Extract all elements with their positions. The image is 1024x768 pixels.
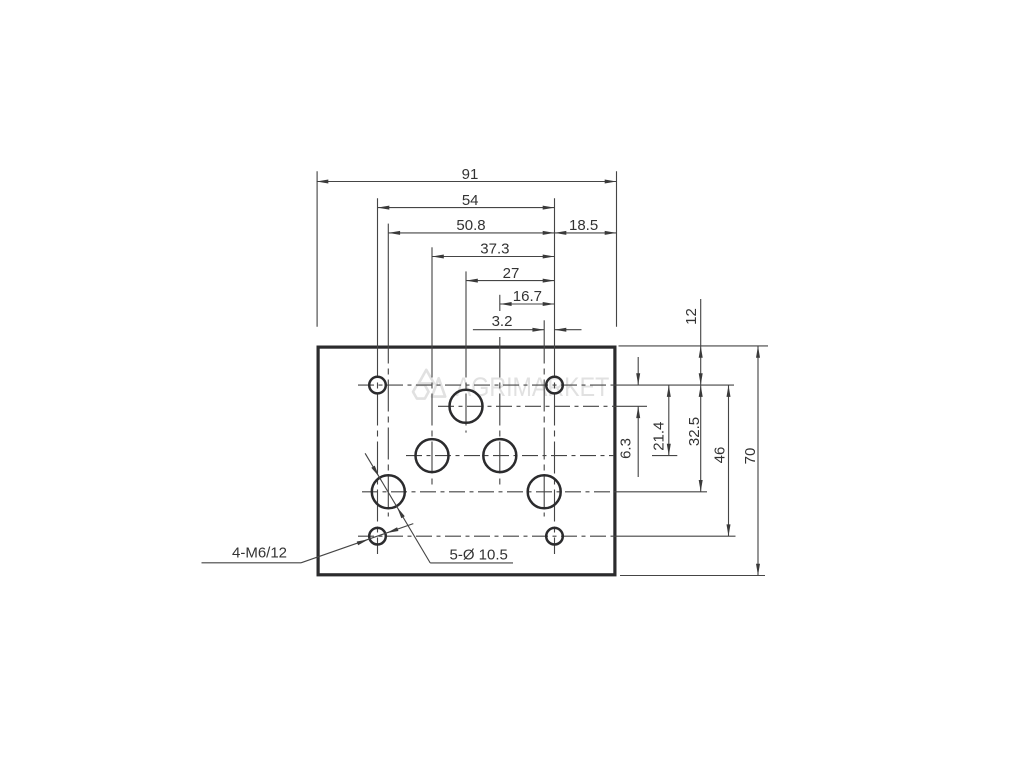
dimension 54: [378, 207, 555, 209]
hole M6 top-left: [369, 377, 386, 394]
dimension 16.7: [500, 303, 555, 305]
dimension 70: [757, 346, 759, 576]
dimension 21.4: [668, 385, 670, 456]
svg-text:6.3: 6.3: [618, 438, 635, 459]
extension line left M6 column: [377, 198, 379, 345]
plate outline: [318, 347, 615, 575]
svg-text:91: 91: [462, 166, 479, 183]
centerline lower-left port column: [387, 346, 389, 517]
centerline bottom M6 row: [358, 535, 614, 537]
svg-text:21.4: 21.4: [651, 422, 668, 451]
hole port B: [483, 439, 516, 472]
watermark logo: [413, 370, 445, 399]
extension line port B column: [499, 295, 501, 311]
hole port T right: [528, 475, 561, 508]
svg-text:16.7: 16.7: [513, 288, 542, 305]
centerline port B column: [499, 346, 501, 490]
dimension 3.2: [473, 329, 544, 331]
centerline right M6 column: [554, 346, 556, 555]
svg-text:4-M6/12: 4-M6/12: [232, 545, 287, 562]
hole M6 top-right: [546, 377, 563, 394]
dimension 27: [466, 280, 555, 282]
svg-text:27: 27: [503, 265, 520, 282]
svg-text:5-Ø 10.5: 5-Ø 10.5: [450, 546, 508, 563]
svg-text:50.8: 50.8: [456, 217, 485, 234]
hole port P: [450, 390, 483, 423]
extension line port A column: [431, 247, 433, 345]
dimension 12: [700, 299, 702, 385]
extension line lower-left port column: [387, 224, 389, 346]
extension line port P column: [465, 271, 467, 345]
centerline port P column: [465, 346, 467, 433]
leader 4-M6/12: [202, 562, 302, 564]
dimension 37.3: [432, 256, 555, 258]
svg-text:37.3: 37.3: [480, 241, 509, 258]
svg-text:32.5: 32.5: [686, 417, 703, 446]
centerline port A column: [431, 346, 433, 490]
dimension 50.8: [388, 232, 554, 234]
dimension 18.5: [555, 232, 617, 234]
centerline port P row: [438, 405, 614, 407]
hole port T left: [372, 475, 405, 508]
centerline left M6 column: [377, 346, 379, 555]
hole port A: [416, 439, 449, 472]
centerline top M6 row: [358, 384, 614, 386]
dimension 91: [317, 181, 617, 183]
svg-text:12: 12: [683, 308, 700, 325]
extension line right M6 column: [554, 198, 556, 345]
hole M6 bottom-left: [369, 528, 386, 545]
centerline ports A-B row: [406, 455, 614, 457]
svg-text:46: 46: [712, 447, 729, 464]
extension line plate right edge: [616, 171, 618, 327]
dimension 6.3: [637, 357, 639, 385]
extension line lower-right port column: [543, 320, 545, 345]
svg-text:70: 70: [742, 448, 759, 465]
extension line plate bottom edge: [620, 575, 765, 577]
extension line plate left edge: [316, 171, 318, 327]
centerline lower ports row: [362, 491, 614, 493]
svg-text:3.2: 3.2: [492, 313, 513, 330]
dimension 32.5: [700, 385, 702, 492]
svg-text:54: 54: [462, 192, 479, 209]
dimension 46: [728, 385, 730, 536]
hole M6 bottom-right: [546, 528, 563, 545]
svg-text:18.5: 18.5: [569, 217, 598, 234]
centerline lower-right port column: [543, 346, 545, 517]
leader 5-Ø10.5: [430, 562, 513, 564]
extension line plate top edge: [619, 345, 769, 347]
